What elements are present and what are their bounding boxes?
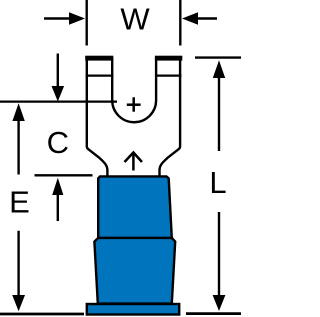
dimension C: tick line xyxy=(35,174,93,176)
insulation barrel upper section xyxy=(98,176,172,238)
stud center line xyxy=(0,100,117,102)
dimension E: lower arrow pointing down xyxy=(12,231,25,312)
insulation barrel bottom flare xyxy=(87,304,179,315)
right prong seam line xyxy=(155,74,182,76)
left prong tip bar xyxy=(85,56,113,61)
dimension L: lower arrow pointing down xyxy=(213,212,226,311)
svg-text:E: E xyxy=(9,185,30,220)
left prong seam line xyxy=(86,74,114,76)
fork terminal metal body outline xyxy=(87,58,180,177)
dimension W: left extension tick xyxy=(85,0,87,46)
dimension C: bottom arrow pointing up xyxy=(52,178,63,221)
bottom datum line right xyxy=(186,312,241,315)
stud center cross mark xyxy=(127,97,141,111)
wire insertion arrow xyxy=(125,153,143,171)
dimension W: right arrow xyxy=(182,12,217,24)
svg-text:C: C xyxy=(47,125,69,160)
dimension L: top tick line xyxy=(195,56,241,58)
dimension C: top arrow pointing down xyxy=(52,54,65,102)
bottom datum line left xyxy=(0,313,84,316)
dimension E: upper arrow pointing up xyxy=(12,103,24,174)
svg-text:W: W xyxy=(120,2,150,37)
insulation barrel lower section xyxy=(94,238,175,304)
dimension L: upper arrow pointing up xyxy=(213,60,225,151)
svg-text:L: L xyxy=(209,165,226,200)
right prong tip bar xyxy=(155,56,182,61)
dimension W: right extension tick xyxy=(179,0,181,46)
dimension W: left arrow xyxy=(44,12,85,24)
